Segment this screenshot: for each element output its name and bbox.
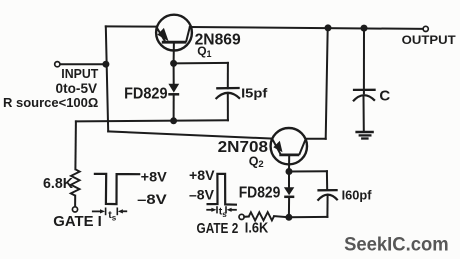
ground [355,132,373,139]
diode D1 FD829 [168,63,179,120]
gate1 terminal [72,207,77,212]
node input junction [102,61,109,68]
node Q1 base top [170,60,177,67]
wire Q2 collector to rail [306,138,326,140]
capacitor C [353,28,376,131]
svg-text:0to-5V: 0to-5V [56,80,98,96]
capacitor 15pf [216,88,240,120]
wire input stub [60,63,106,65]
capacitor 160pf branch [289,171,338,217]
gate1 waveform pulse [94,174,141,204]
output terminal [423,26,428,31]
svg-text:2N708: 2N708 [218,139,269,156]
wire Q1 base node to 15pf branch [174,62,228,65]
svg-text:OUTPUT: OUTPUT [402,33,457,47]
wire 6.8K branch vertical [74,121,77,169]
svg-text:FD829: FD829 [124,85,168,102]
svg-text:I.6K: I.6K [245,220,269,236]
node rail collector junction [325,24,332,31]
node diode D1 bottom [170,117,177,124]
wire collector riser [326,28,328,139]
resistor R2 1.6K [249,212,274,220]
svg-text:6.8K: 6.8K [43,175,73,192]
svg-text:I5pf: I5pf [241,85,268,100]
svg-text:+8V: +8V [189,167,215,183]
gate2 terminal [239,214,244,219]
gate2 timing marks ts [206,206,237,220]
resistor R1 6.8K [71,169,80,195]
input terminal [55,62,60,67]
svg-text:–8V: –8V [189,186,215,202]
transistor Q1 [156,15,192,64]
wire resistor to node [274,216,289,217]
svg-text:GATE 2: GATE 2 [197,220,239,237]
wire input vertical [106,26,108,131]
node Q2 base [286,168,293,175]
svg-text:GATE I: GATE I [53,213,102,230]
wire 15pf branch vertical top [227,63,229,88]
diode D2 FD829 [284,172,294,218]
node C branch top [361,25,368,32]
svg-text:C: C [379,88,390,105]
wire bottom horizontal (6.8K top to 15pf bottom) [76,120,228,121]
gate1 timing marks ts [92,208,127,223]
svg-text:SeekIC.com: SeekIC.com [344,233,449,255]
svg-text:INPUT: INPUT [61,66,98,81]
gate2 waveform pulse [207,174,238,205]
wire top rail left segment [106,25,157,27]
svg-text:I60pf: I60pf [342,188,373,203]
svg-text:–8V: –8V [137,191,167,207]
wire top rail right segment [190,27,423,29]
svg-text:R source<100Ω: R source<100Ω [3,96,98,110]
transistor Q2 [271,128,307,172]
wire gate2 to resistor [244,216,249,218]
svg-text:+8V: +8V [141,169,168,185]
svg-text:FD829: FD829 [239,185,281,202]
wire resistor to gate1 [74,196,76,207]
wire input feed to Q2 emitter [108,131,272,138]
node bottom junction [285,214,292,221]
